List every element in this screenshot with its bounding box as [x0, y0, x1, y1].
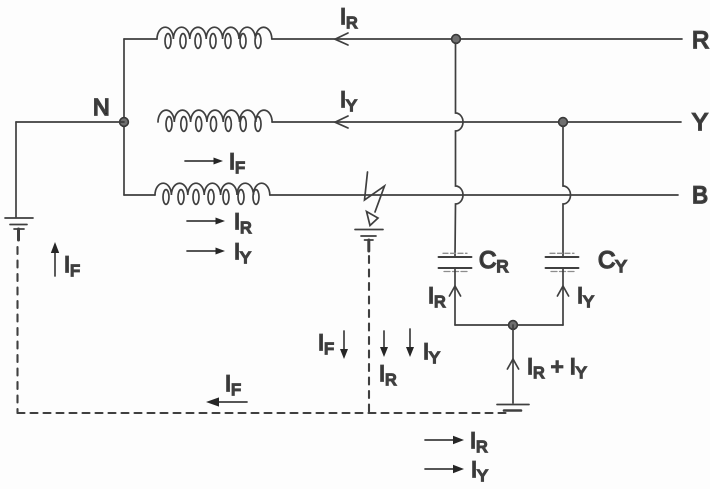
svg-text:IR + IY: IR + IY [527, 354, 587, 382]
arrow I_Y down (return) [409, 329, 411, 349]
svg-text:IR: IR [379, 361, 397, 389]
arrow I_R down (return) [383, 331, 385, 349]
arrow I_F fault current in B winding [185, 160, 216, 162]
svg-text:N: N [93, 94, 110, 120]
node junction on R line [452, 35, 461, 44]
wire: below C_R [454, 269, 456, 325]
wire: dashed from fault earth down [368, 256, 370, 413]
arrow I_R capacitive current in B winding [187, 220, 218, 222]
wire: below C_Y [562, 269, 564, 325]
wire: neutral spine vertical [123, 39, 125, 195]
arrowhead on R line (current direction) [335, 33, 348, 45]
wire: Y phase line [272, 121, 681, 123]
svg-text:IF: IF [318, 330, 334, 358]
ground G2 (fault earth) [355, 230, 383, 252]
arrow I_R bottom legend [425, 439, 455, 441]
svg-text:IR: IR [470, 428, 488, 456]
arrow I_R + I_Y up [507, 359, 518, 369]
winding L_R (R-phase) [124, 27, 272, 48]
arrow I_R up into C_R [449, 286, 460, 296]
svg-text:IF: IF [229, 149, 245, 177]
svg-text:IF: IF [64, 252, 80, 280]
fault F lightning arrow on B line [365, 172, 385, 226]
svg-text:CY: CY [598, 247, 627, 276]
arrow I_F up through neutral earth [54, 251, 56, 276]
svg-text:IY: IY [577, 283, 594, 311]
wire: C_R branch from R line with hops over Y and B [455, 43, 463, 256]
wire: dashed fault-current return (left vertical) [16, 247, 18, 413]
winding L_Y (Y-phase) [158, 110, 272, 131]
winding L_B (B-phase) [124, 183, 270, 204]
svg-text:IF: IF [225, 371, 241, 399]
wire: R phase line [272, 38, 682, 40]
arrow I_Y up into C_Y [557, 286, 568, 296]
svg-text:B: B [692, 182, 708, 209]
svg-text:IY: IY [234, 239, 251, 267]
arrow I_Y capacitive current in B winding [187, 250, 218, 252]
svg-text:R: R [692, 27, 709, 54]
wire: capacitor common bottom [455, 324, 563, 326]
arrow I_F down (fault path) [343, 331, 345, 351]
svg-text:IR: IR [234, 209, 252, 237]
capacitor C_Y [546, 253, 579, 271]
arrowhead on Y line (current direction) [335, 116, 348, 128]
svg-text:IY: IY [340, 87, 357, 115]
svg-text:IY: IY [471, 457, 488, 485]
capacitor C_R [439, 253, 472, 271]
node N (neutral point) [120, 118, 129, 127]
wire: star point to earth [512, 325, 514, 403]
svg-text:IR: IR [428, 283, 446, 311]
svg-text:IY: IY [423, 339, 440, 367]
wire: dashed fault-current return (bottom horizontal) [18, 412, 508, 414]
ground G1 (neutral earth) [5, 218, 33, 240]
wire: C_Y branch from Y line with hop over B [563, 126, 571, 256]
svg-text:IR: IR [340, 4, 358, 32]
svg-text:CR: CR [479, 247, 509, 276]
wire: N to left earth [16, 121, 124, 123]
ground G3 (capacitor earth) [497, 405, 529, 411]
node capacitor star point [509, 321, 518, 330]
wire: B phase line [270, 194, 678, 196]
arrow I_F left along return path [217, 401, 247, 403]
node junction on Y line [559, 118, 568, 127]
svg-text:Y: Y [692, 109, 708, 136]
arrow I_Y bottom legend [425, 468, 455, 470]
